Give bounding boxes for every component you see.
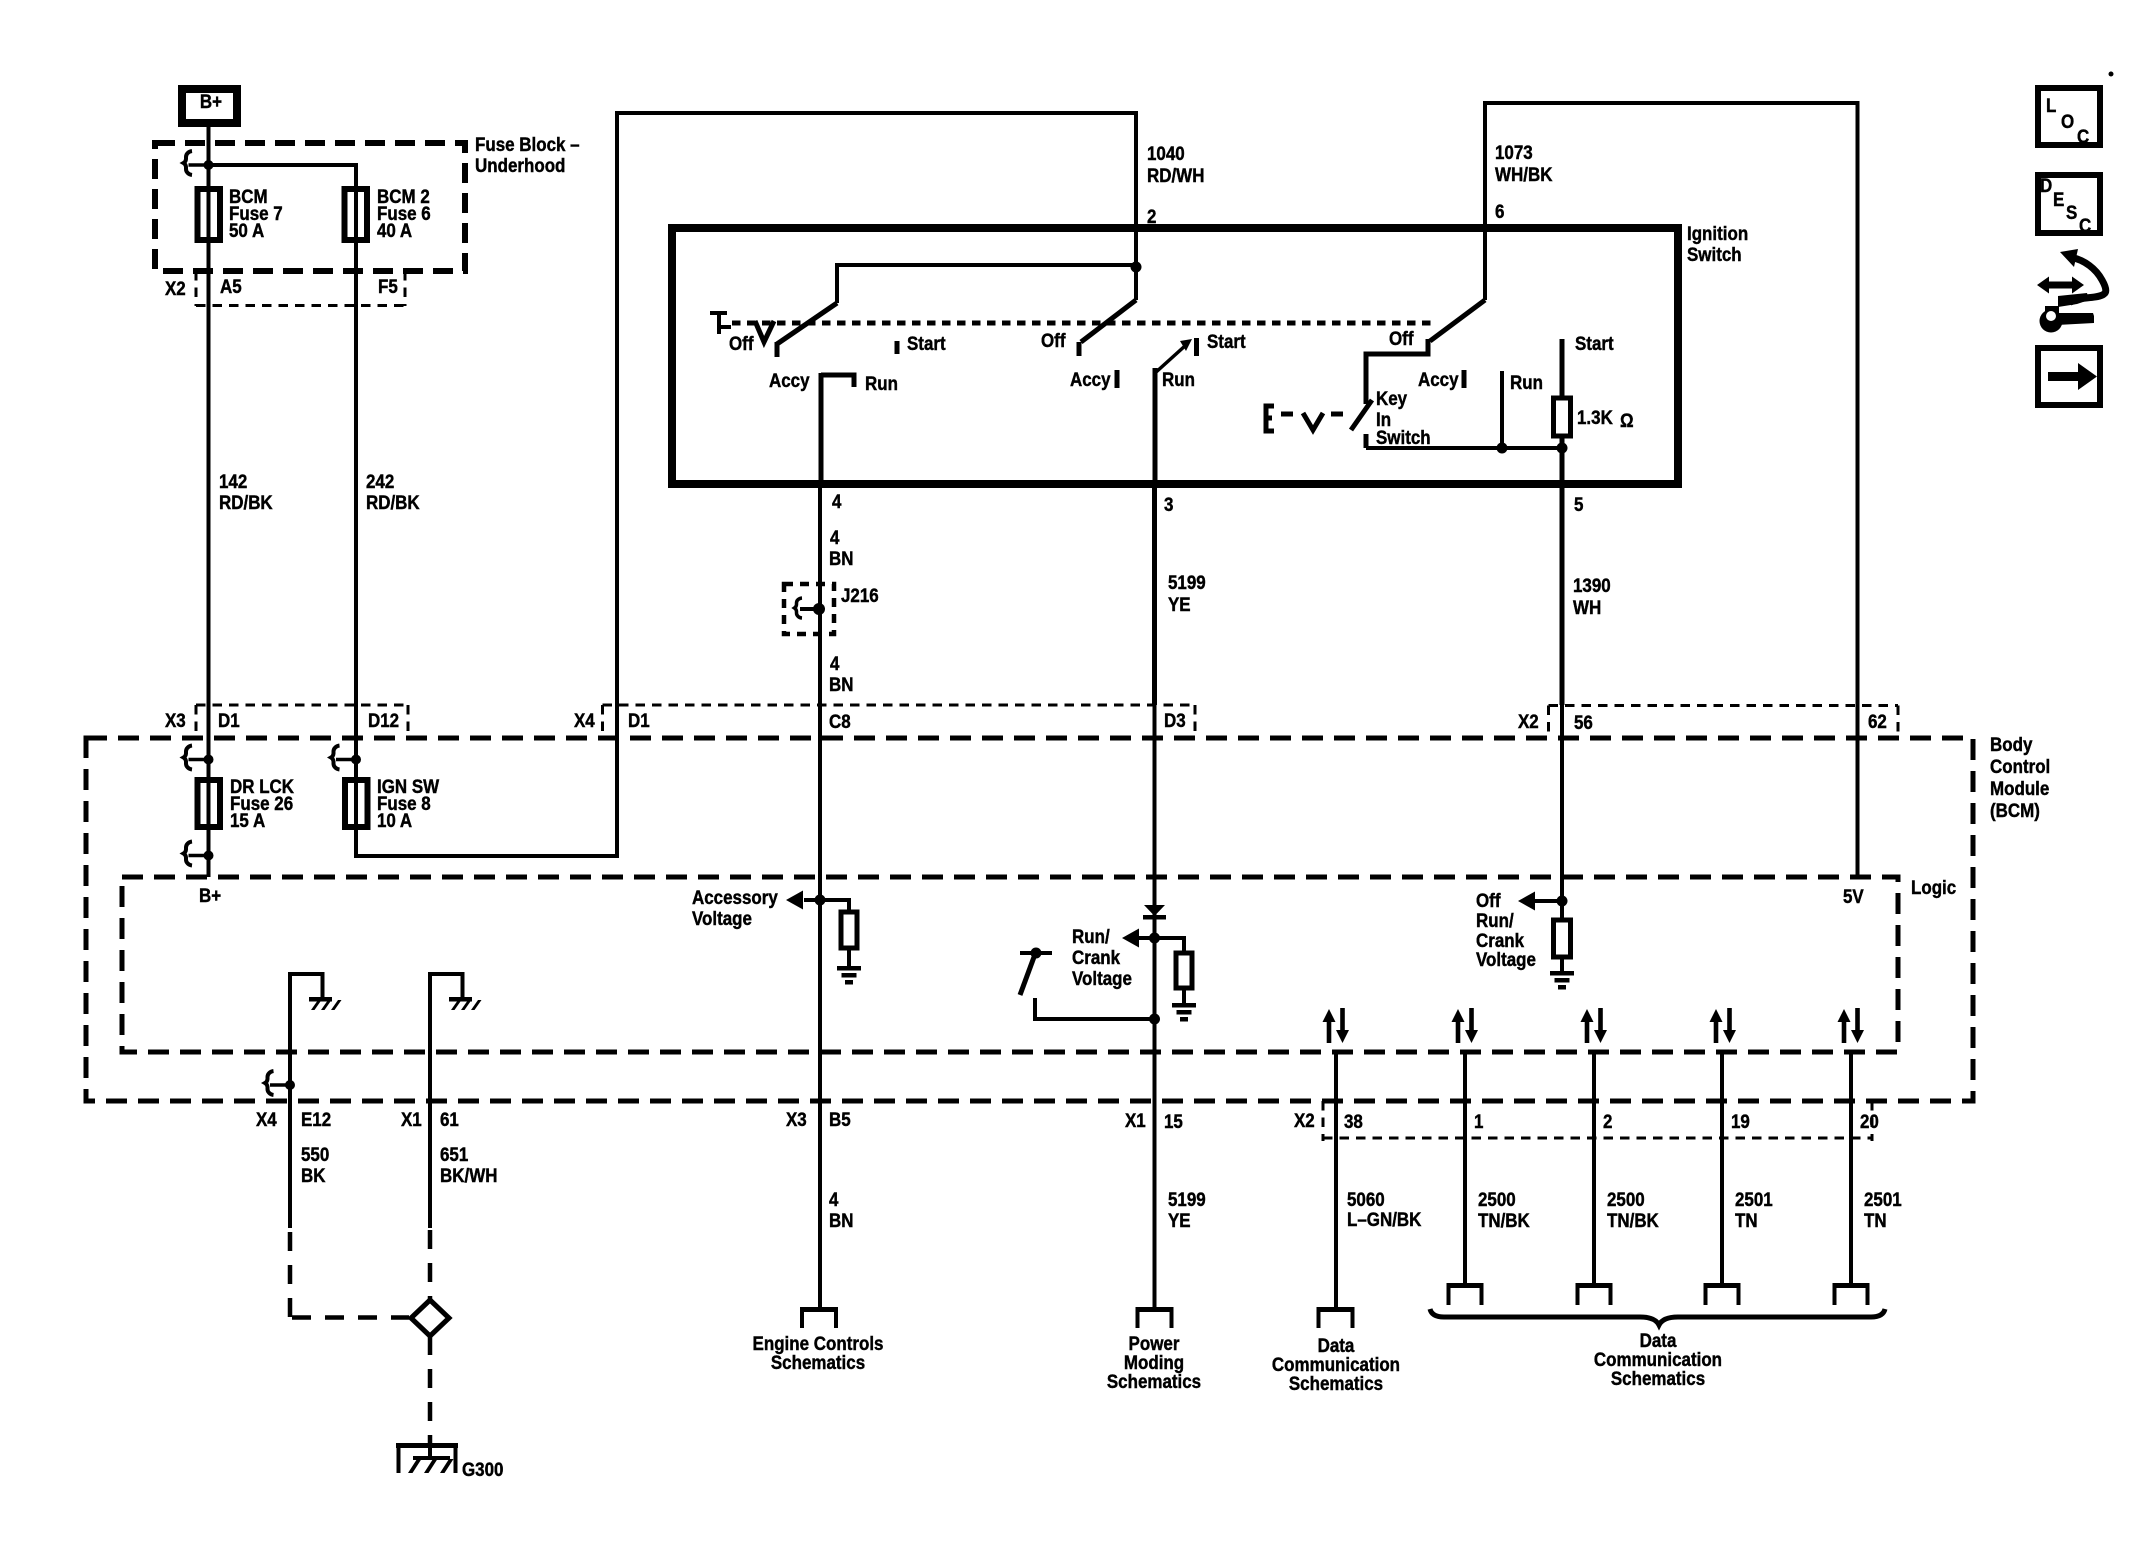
svg-text:Schematics: Schematics xyxy=(1289,1372,1383,1394)
ignition wafer 1 feed and blade xyxy=(777,265,1136,357)
icon next arrow box xyxy=(2038,348,2100,405)
svg-text:TN: TN xyxy=(1864,1209,1887,1231)
destination symbol pin 20 xyxy=(1833,1283,1870,1305)
clip hook above fuse 8 xyxy=(331,746,361,770)
svg-text:56: 56 xyxy=(1574,711,1593,733)
wire serial data 19 xyxy=(1720,1053,1724,1286)
splice J216 xyxy=(784,584,879,634)
destination symbol power moding xyxy=(1107,1307,1201,1392)
svg-text:Schematics: Schematics xyxy=(1611,1367,1705,1389)
bottom connector row X4 E12 X1 61 xyxy=(256,1108,459,1130)
wire 550 BK xyxy=(290,1101,409,1318)
data link arrows pair 4 xyxy=(1710,1008,1737,1043)
data link arrows pair 3 xyxy=(1581,1008,1608,1043)
destination symbol engine controls xyxy=(753,1307,884,1373)
svg-text:2500: 2500 xyxy=(1607,1188,1645,1210)
svg-text:WH/BK: WH/BK xyxy=(1495,163,1553,185)
wire 5060 L-GN/BK labels xyxy=(1347,1188,1422,1230)
dashed wire to G300 xyxy=(428,1336,433,1444)
svg-text:L–GN/BK: L–GN/BK xyxy=(1347,1208,1422,1230)
svg-text:D1: D1 xyxy=(628,709,650,731)
fuse BCM 2 Fuse 6 40 A xyxy=(345,185,431,241)
svg-text:Ignition: Ignition xyxy=(1687,222,1748,244)
svg-text:D1: D1 xyxy=(218,709,240,731)
svg-text:X1: X1 xyxy=(401,1108,422,1130)
svg-text:Switch: Switch xyxy=(1687,243,1742,265)
svg-text:4: 4 xyxy=(829,1188,839,1210)
brace under data communication wires xyxy=(1430,1309,1885,1325)
svg-text:6: 6 xyxy=(1495,200,1504,222)
svg-text:Off: Off xyxy=(729,332,754,354)
wire 2500 TN/BK labels pin 1 xyxy=(1478,1188,1531,1231)
svg-text:Run: Run xyxy=(1162,368,1195,390)
svg-text:5: 5 xyxy=(1574,493,1583,515)
svg-text:X1: X1 xyxy=(1125,1109,1146,1131)
wafer 1 Start contact xyxy=(897,332,946,354)
ground G300 xyxy=(396,1443,503,1480)
svg-text:Accy: Accy xyxy=(769,369,810,391)
run/crank voltage tap on D3 wire xyxy=(1072,705,1166,1101)
svg-text:5V: 5V xyxy=(1843,885,1864,907)
svg-text:WH: WH xyxy=(1573,596,1601,618)
ignition pin 3 wire xyxy=(1155,368,1206,705)
svg-text:Voltage: Voltage xyxy=(1072,967,1132,989)
svg-text:F5: F5 xyxy=(378,275,398,297)
data link arrows pair 5 xyxy=(1838,1008,1865,1043)
wire branch to fuse 6 xyxy=(209,165,357,189)
off/run/crank voltage tap on 56 wire xyxy=(1476,705,1568,970)
BCM connector row X4 D1 C8 D3 xyxy=(574,705,1195,736)
svg-text:50 A: 50 A xyxy=(229,219,264,241)
svg-text:1073: 1073 xyxy=(1495,141,1533,163)
svg-text:J216: J216 xyxy=(841,584,879,606)
wire 4 BN upper label xyxy=(829,526,853,569)
svg-text:X3: X3 xyxy=(786,1108,807,1130)
svg-text:Run/: Run/ xyxy=(1072,925,1110,947)
wire 2501 TN labels pin 20 xyxy=(1864,1188,1902,1231)
svg-text:1040: 1040 xyxy=(1147,142,1185,164)
svg-text:Start: Start xyxy=(1575,332,1614,354)
BCM logic dashed box xyxy=(122,876,1956,1052)
wafer 1 Accy-Run contact bracket xyxy=(769,369,898,394)
clip hook below fuse 26 xyxy=(184,842,214,866)
svg-text:20: 20 xyxy=(1860,1110,1879,1132)
svg-text:X4: X4 xyxy=(574,709,596,731)
svg-text:2: 2 xyxy=(1147,205,1156,227)
wire 4 BN lower label xyxy=(829,652,853,695)
svg-text:Start: Start xyxy=(907,332,946,354)
wire 2500 TN/BK labels pin 2 xyxy=(1607,1188,1660,1231)
svg-text:15 A: 15 A xyxy=(230,809,265,831)
svg-text:5199: 5199 xyxy=(1168,571,1206,593)
wire serial data 20 xyxy=(1849,1053,1853,1286)
svg-text:Run: Run xyxy=(1510,371,1543,393)
mechanical linkage dashed line xyxy=(732,321,1437,326)
svg-text:BN: BN xyxy=(829,547,853,569)
svg-text:Logic: Logic xyxy=(1911,876,1956,898)
svg-text:Fuse Block –: Fuse Block – xyxy=(475,133,580,155)
wire 5199 YE to power moding xyxy=(1155,1101,1206,1310)
wire serial data 38 xyxy=(1334,1053,1338,1310)
svg-text:2501: 2501 xyxy=(1735,1188,1773,1210)
svg-text:RD/WH: RD/WH xyxy=(1147,164,1204,186)
wafer 2 Accy contact xyxy=(1070,368,1117,390)
svg-text:D3: D3 xyxy=(1164,709,1186,731)
BCM internal switch to D3 xyxy=(1020,948,1160,1025)
svg-text:Schematics: Schematics xyxy=(771,1351,865,1373)
svg-text:2500: 2500 xyxy=(1478,1188,1516,1210)
svg-text:Switch: Switch xyxy=(1376,426,1431,448)
ignition switch box xyxy=(672,222,1748,484)
internal ground wire for 61 xyxy=(430,974,482,1101)
icon arrows and wrench xyxy=(2037,249,2106,333)
svg-text:Key: Key xyxy=(1376,387,1408,409)
svg-text:15: 15 xyxy=(1164,1110,1183,1132)
svg-text:X4: X4 xyxy=(256,1108,278,1130)
svg-text:O: O xyxy=(2061,110,2074,132)
svg-text:YE: YE xyxy=(1168,593,1191,615)
svg-text:Ω: Ω xyxy=(1620,409,1634,431)
key in switch linkage E-V- xyxy=(1266,406,1343,431)
svg-text:Start: Start xyxy=(1207,330,1246,352)
destination symbol pin 1 xyxy=(1447,1283,1484,1305)
svg-text:1390: 1390 xyxy=(1573,574,1611,596)
wafer 3 common bus to pin 5 xyxy=(1366,443,1568,454)
svg-text:C: C xyxy=(2077,125,2089,147)
svg-text:550: 550 xyxy=(301,1143,329,1165)
svg-text:Off: Off xyxy=(1041,329,1066,351)
bottom connector row X3 B5 xyxy=(786,1108,851,1130)
svg-text:B+: B+ xyxy=(199,884,221,906)
svg-text:Crank: Crank xyxy=(1072,946,1121,968)
svg-text:38: 38 xyxy=(1344,1110,1363,1132)
svg-text:10 A: 10 A xyxy=(377,809,412,831)
svg-text:4: 4 xyxy=(830,526,840,548)
svg-text:S: S xyxy=(2066,201,2077,223)
data link arrows pair 2 xyxy=(1452,1008,1479,1043)
svg-text:C8: C8 xyxy=(829,710,851,732)
svg-text:YE: YE xyxy=(1168,1209,1191,1231)
clip hook at B+ feed xyxy=(184,151,214,175)
svg-text:X2: X2 xyxy=(1518,710,1539,732)
run/crank pulldown resistor and ground xyxy=(1155,938,1197,1022)
linkage V mark xyxy=(755,321,774,342)
wafer 3 blade from 1073 xyxy=(1366,228,1485,404)
svg-text:Underhood: Underhood xyxy=(475,154,565,176)
svg-text:Body: Body xyxy=(1990,733,2033,755)
wire 651 BK/WH xyxy=(430,1101,497,1300)
off/run/crank pulldown resistor and ground xyxy=(1550,920,1574,990)
wafer 3 Run contact xyxy=(1502,371,1543,448)
destination symbol data communication single xyxy=(1272,1307,1400,1394)
svg-text:19: 19 xyxy=(1731,1110,1750,1132)
wire serial data 2 xyxy=(1592,1053,1596,1286)
internal ground wire for E12 xyxy=(290,974,342,1101)
key in switch blade xyxy=(1351,387,1431,448)
data communication group label xyxy=(1594,1329,1722,1389)
svg-text:2: 2 xyxy=(1603,1110,1612,1132)
svg-text:X2: X2 xyxy=(1294,1109,1315,1131)
battery B+ symbol box xyxy=(182,89,237,123)
data link arrows pair 1 xyxy=(1323,1008,1350,1043)
clip hook at E12 exit xyxy=(265,1071,295,1095)
BCM connector row X2 56 62 xyxy=(1518,706,1898,734)
svg-text:Accessory: Accessory xyxy=(692,886,779,908)
svg-text:Run: Run xyxy=(865,372,898,394)
accessory voltage pulldown resistor and ground xyxy=(820,900,861,985)
svg-text:Schematics: Schematics xyxy=(1107,1370,1201,1392)
svg-text:Module: Module xyxy=(1990,777,2049,799)
stray scan dot xyxy=(2109,72,2114,77)
fuse BCM Fuse 7 50 A xyxy=(198,185,283,241)
svg-text:Voltage: Voltage xyxy=(692,907,752,929)
svg-text:L: L xyxy=(2046,94,2056,116)
node 5V inside logic xyxy=(1843,738,1864,907)
wafer 2 blade from 1040 xyxy=(1079,228,1142,356)
svg-text:C: C xyxy=(2079,214,2091,236)
wire B+ to fuse block xyxy=(207,127,211,877)
svg-text:G300: G300 xyxy=(462,1458,503,1480)
svg-text:Accy: Accy xyxy=(1070,368,1111,390)
wire 2501 TN labels pin 19 xyxy=(1735,1188,1773,1231)
svg-text:5199: 5199 xyxy=(1168,1188,1206,1210)
connector row X2 A5 F5 xyxy=(165,271,405,306)
wire 1073 WH/BK path from BCM 62 to ignition pin 6 xyxy=(1485,103,1858,877)
svg-text:E12: E12 xyxy=(301,1108,331,1130)
bottom connector row X1 15 xyxy=(1125,1109,1183,1132)
wire 1040 RD/WH path from fuse 8 to ignition pin 2 xyxy=(356,113,1204,856)
svg-text:3: 3 xyxy=(1164,493,1173,515)
wafer 3 Accy contact xyxy=(1418,368,1464,390)
wafer 2 Run-Start bridge arc xyxy=(1155,330,1246,373)
svg-text:X3: X3 xyxy=(165,709,186,731)
svg-text:61: 61 xyxy=(440,1108,459,1130)
svg-text:Control: Control xyxy=(1990,755,2050,777)
body control module BCM dashed box xyxy=(86,733,2050,1101)
accessory voltage tap on C8 wire xyxy=(692,705,826,1101)
svg-text:X2: X2 xyxy=(165,277,186,299)
svg-text:Voltage: Voltage xyxy=(1476,948,1536,970)
svg-text:B5: B5 xyxy=(829,1108,851,1130)
fuse block underhood dashed box xyxy=(155,143,465,271)
svg-text:RD/BK: RD/BK xyxy=(219,491,273,513)
wire 242 RD/BK xyxy=(356,189,420,827)
destination symbol pin 2 xyxy=(1576,1283,1613,1305)
fuse DR LCK Fuse 26 15 A xyxy=(198,775,295,831)
svg-text:142: 142 xyxy=(219,470,247,492)
svg-text:TN/BK: TN/BK xyxy=(1478,1209,1531,1231)
svg-text:TN/BK: TN/BK xyxy=(1607,1209,1660,1231)
svg-text:B+: B+ xyxy=(200,90,222,112)
start contact wire and resistor 1.3K xyxy=(1554,332,1634,448)
svg-text:1: 1 xyxy=(1474,1110,1483,1132)
wire 4 BN to engine controls xyxy=(820,1101,853,1310)
icon LOC box xyxy=(2038,88,2100,147)
svg-text:BN: BN xyxy=(829,673,853,695)
BCM connector row X3 D1 D12 xyxy=(165,705,408,736)
ignition pin 4 wire xyxy=(820,375,842,705)
svg-text:E: E xyxy=(2053,188,2064,210)
svg-text:4: 4 xyxy=(832,490,842,512)
fuse IGN SW Fuse 8 10 A xyxy=(345,775,440,831)
svg-text:62: 62 xyxy=(1868,710,1887,732)
destination symbol pin 19 xyxy=(1704,1283,1741,1305)
svg-text:BK: BK xyxy=(301,1164,326,1186)
svg-text:(BCM): (BCM) xyxy=(1990,799,2040,821)
svg-text:Accy: Accy xyxy=(1418,368,1459,390)
clip hook above fuse 26 xyxy=(184,746,214,770)
svg-text:TN: TN xyxy=(1735,1209,1758,1231)
splice diamond xyxy=(411,1300,449,1336)
svg-text:Off: Off xyxy=(1389,327,1414,349)
wire 142 RD/BK xyxy=(209,306,274,705)
svg-text:4: 4 xyxy=(830,652,840,674)
svg-text:BK/WH: BK/WH xyxy=(440,1164,497,1186)
svg-text:40 A: 40 A xyxy=(377,219,412,241)
svg-text:A5: A5 xyxy=(220,275,242,297)
wire serial data 1 xyxy=(1463,1053,1467,1286)
bottom connector row X2 38 1 2 19 20 xyxy=(1294,1101,1879,1141)
svg-text:242: 242 xyxy=(366,470,394,492)
icon DESC box xyxy=(2038,174,2100,236)
fuse block label xyxy=(475,133,580,176)
ignition pin 5 wire 1390 WH xyxy=(1562,448,1611,705)
svg-text:D: D xyxy=(2040,174,2052,196)
svg-text:RD/BK: RD/BK xyxy=(366,491,420,513)
linkage end mark xyxy=(710,313,731,334)
svg-text:2501: 2501 xyxy=(1864,1188,1902,1210)
svg-text:D12: D12 xyxy=(368,709,399,731)
svg-text:BN: BN xyxy=(829,1209,853,1231)
svg-text:1.3K: 1.3K xyxy=(1577,406,1614,428)
svg-text:651: 651 xyxy=(440,1143,468,1165)
